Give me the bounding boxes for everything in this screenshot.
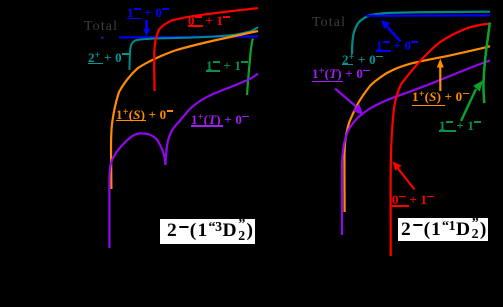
underline: violet label (left) xyxy=(191,125,223,127)
label: Total (right panel) xyxy=(312,16,346,30)
curve: blue 1-+0- threshold dash (left panel) xyxy=(101,37,104,39)
underline: green label (left) xyxy=(206,70,220,72)
underline: violet label (right) xyxy=(312,81,343,83)
underline: teal label (left) xyxy=(88,63,103,65)
label: blue 1-+0- (left panel) xyxy=(127,6,169,19)
underline: orange label (left) xyxy=(116,120,146,122)
curve: green 1-+1- (left panel) xyxy=(247,39,253,96)
label: teal 2++0- (right panel) xyxy=(342,53,383,66)
label: violet 1+(T)+0- (right panel) xyxy=(312,67,370,80)
arrow: orange up-arrow from label to 1+(S) curve (right panel) xyxy=(437,59,444,92)
label: red 0-+1- (right panel) xyxy=(392,193,434,206)
curve: violet 1+(T)+0- with cusp (left panel) xyxy=(109,74,258,249)
box: 2-(1 "1D2") state label (right panel) xyxy=(398,218,488,241)
label: green 1-+1- (left panel) xyxy=(206,59,248,72)
underline: teal label (right) xyxy=(342,64,353,66)
curve: blue 1-+0- flat line (left panel) xyxy=(119,36,258,37)
underline: red label (right) xyxy=(392,205,409,207)
underline: orange label (right) xyxy=(412,105,445,107)
curve: orange 1+(S)+0- (right panel) xyxy=(344,46,490,212)
label: red 0-+1- (left panel) xyxy=(188,14,230,27)
label: Total (left panel) xyxy=(84,20,118,34)
arrow: blue down-arrow to 1-+0- line (left panel) xyxy=(143,20,150,36)
curve: green 1-+1- steep (right panel) xyxy=(483,23,489,104)
curve: red 0-+1- steep (right panel) xyxy=(391,24,490,257)
curve: blue 1-+0- flat line (right panel) xyxy=(366,14,490,17)
arrow: green from label to 1-+1- curve (right panel) xyxy=(461,81,483,122)
label: orange 1+(S)+0- (right panel) xyxy=(412,90,470,103)
underline: blue label (right) xyxy=(376,50,391,52)
label: green 1-+1- (right panel) xyxy=(439,119,481,132)
label: teal 2++0- (left panel) xyxy=(88,51,129,64)
arrow: violet from label to 1+(T) curve (right panel) xyxy=(335,89,364,116)
arrow: red from label to 0-+1- curve (right panel) xyxy=(393,162,415,190)
curve: teal 2++0- (left panel) xyxy=(130,27,259,70)
curve: orange 1+(S)+0- (left panel) xyxy=(111,31,258,189)
curve: violet 1+(T)+0- (right panel) xyxy=(342,61,490,236)
label: blue 1-+0- (right panel) xyxy=(376,39,418,52)
underline: red label (left) xyxy=(188,25,203,27)
label: orange 1+(S)+0- (left panel) xyxy=(116,108,174,121)
curve: teal 2++0- (right panel) xyxy=(352,12,490,55)
underline: green label (right) xyxy=(439,130,456,132)
curve: red 0-+1- (left panel) xyxy=(154,8,258,91)
arrow: blue from label to 1-+0- line (right panel) xyxy=(381,20,401,41)
underline: blue label (left) xyxy=(127,18,142,20)
box: 2-(1 "3D2") state label (left panel) xyxy=(160,219,255,244)
label: violet 1+(T)+0- (left panel) xyxy=(191,113,249,126)
